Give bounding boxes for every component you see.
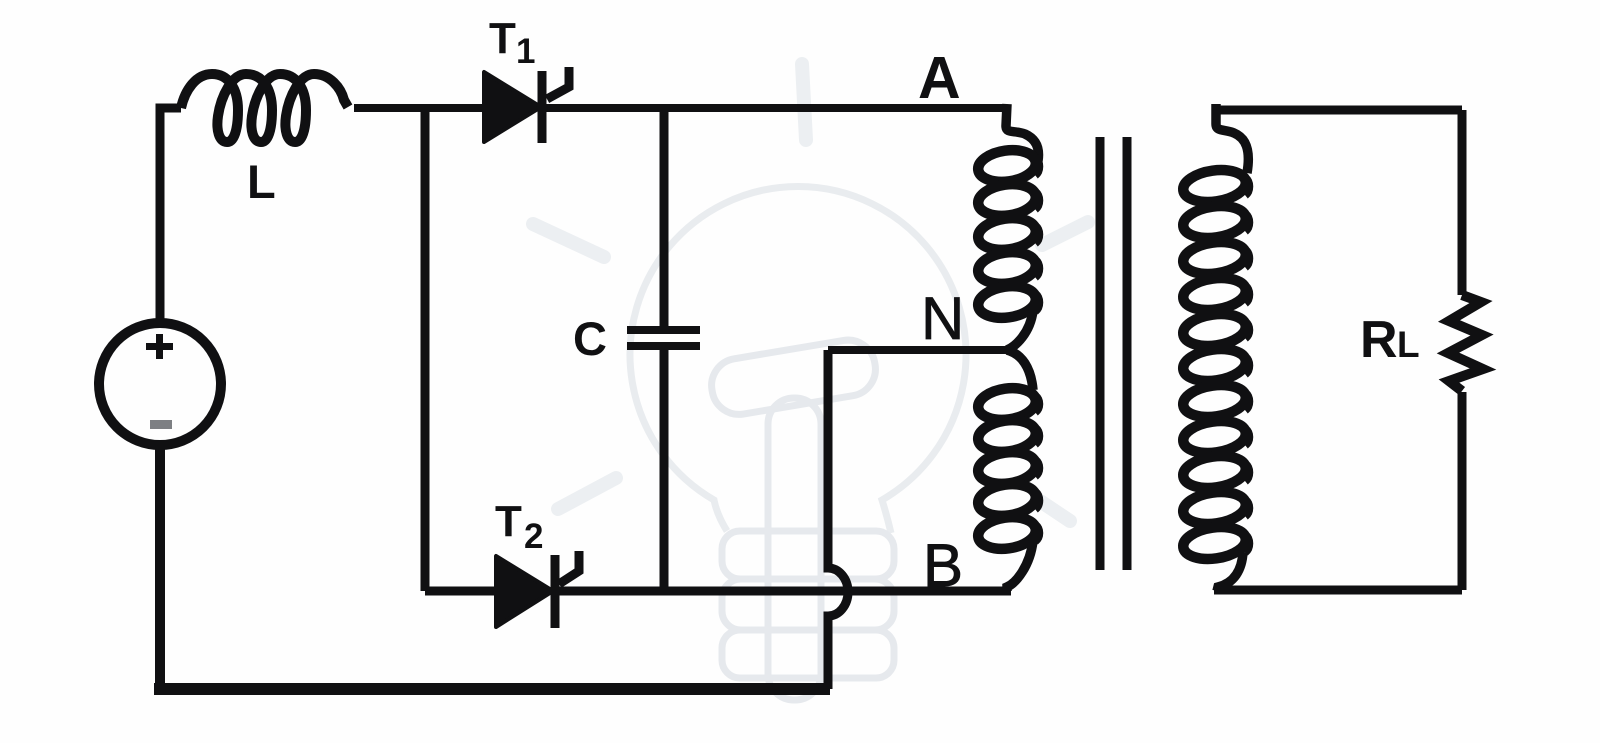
thyristor T2 [496,551,579,628]
wire: secondary bottom to RL [1214,586,1462,595]
wire: node N horizontal [828,346,1007,354]
svg-text:T: T [495,497,522,546]
source minus terminal [150,420,172,429]
svg-text:L: L [247,155,276,208]
wire: secondary top to RL [1214,106,1462,115]
svg-text:N: N [921,285,964,352]
svg-text:2: 2 [524,517,543,556]
svg-text:R: R [1360,311,1398,369]
wire: source terminals [156,316,165,686]
svg-text:B: B [923,532,963,599]
svg-text:A: A [918,45,961,111]
capacitor C (with branch wires) [627,108,700,591]
transformer core [1100,137,1127,570]
dc source V [99,323,221,445]
svg-text:C: C [573,312,607,365]
wire: left branch vertical (junction to T2) [421,108,430,591]
svg-text:T: T [489,14,516,63]
watermark light bulb [533,64,1088,700]
source plus terminal [146,334,173,359]
wire: T2 row to node B [425,587,1011,596]
wire: source top to inductor (top-left corner) [160,108,181,319]
transformer secondary winding [1181,104,1249,591]
inductor L [181,74,348,142]
wire: T1 cathode to node A [545,104,1007,112]
svg-text:1: 1 [516,32,535,71]
thyristor T1 [484,67,569,143]
wire: RL branch verticals [1458,110,1467,590]
wire: inductor to T1 anode [354,104,486,112]
wire: bottom return [160,683,830,689]
transformer primary winding lower (N to B) [976,350,1039,591]
resistor RL [1448,295,1483,391]
wire: N return vertical with hop over T2 wire [828,350,848,689]
transformer primary winding upper (A to N) [976,104,1039,350]
svg-text:L: L [1397,324,1420,365]
